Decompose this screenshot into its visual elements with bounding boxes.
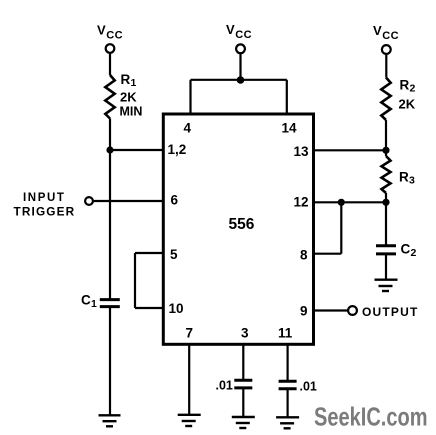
- wire R1 bottom to junction: [109, 119, 111, 151]
- svg-text:2K: 2K: [120, 90, 137, 105]
- svg-text:MIN: MIN: [120, 105, 143, 119]
- wire trigger to pin 6: [93, 200, 164, 202]
- wire pin 13: [313, 149, 386, 151]
- wire junction down to C1: [109, 150, 111, 299]
- resistor R1: [105, 75, 114, 119]
- svg-text:14: 14: [282, 121, 298, 136]
- node VCC (top center) label: [226, 22, 252, 41]
- svg-text:.01: .01: [216, 379, 233, 393]
- wire pin 11 to bypass cap: [287, 344, 289, 381]
- wire to pin 14: [286, 80, 288, 114]
- wire to pin 4: [189, 80, 191, 114]
- svg-text:C: C: [81, 293, 91, 308]
- svg-text:R: R: [400, 78, 410, 93]
- label INPUT TRIGGER: [14, 192, 76, 219]
- svg-text:1: 1: [131, 77, 137, 89]
- svg-text:11: 11: [278, 326, 293, 341]
- svg-text:7: 7: [186, 326, 194, 341]
- svg-text:OUTPUT: OUTPUT: [362, 305, 419, 319]
- ground (pin 7): [178, 415, 201, 426]
- svg-text:12: 12: [294, 195, 309, 210]
- svg-text:.01: .01: [300, 380, 317, 394]
- svg-text:TRIGGER: TRIGGER: [14, 205, 76, 219]
- capacitor C2: [376, 246, 396, 254]
- label R1 2K MIN: [120, 72, 143, 119]
- wire junction to pin 1,2: [108, 149, 164, 151]
- svg-text:V: V: [97, 23, 106, 38]
- wire pin 3 to bypass cap: [242, 344, 244, 380]
- wire bracket pin 5 to pin 10: [135, 253, 163, 308]
- node VCC (right) label: [373, 23, 399, 42]
- wire R2 to junction 13: [385, 120, 387, 150]
- ground (C2): [375, 280, 398, 291]
- junction pin12/pin8 bracket: [338, 199, 345, 206]
- wire pin 7 to ground: [188, 344, 190, 415]
- terminal VCC right (open circle): [382, 45, 391, 54]
- label R2 2K: [399, 78, 416, 112]
- svg-text:1,2: 1,2: [168, 142, 187, 157]
- wire bracket horizontal pins 4-14: [191, 79, 287, 81]
- capacitor .01 (pin 3): [234, 380, 252, 388]
- svg-text:V: V: [226, 22, 235, 37]
- svg-text:13: 13: [294, 144, 310, 159]
- wire junction 12 down to C2: [385, 202, 387, 245]
- terminal VCC top center (open circle): [236, 44, 245, 53]
- ground (C1): [99, 415, 121, 426]
- wire bracket pin 12 to pin 8: [313, 202, 341, 253]
- wire R3 to junction 12: [385, 193, 387, 202]
- terminal VCC left (open circle): [106, 44, 115, 53]
- svg-text:1: 1: [91, 298, 97, 310]
- resistor R3: [382, 156, 391, 193]
- svg-text:R: R: [399, 170, 409, 185]
- wire VCC center down to bracket: [239, 53, 241, 80]
- svg-text:3: 3: [409, 175, 415, 187]
- op IC 556 body: [163, 114, 313, 344]
- junction R3/C2/pin12: [382, 199, 389, 206]
- label C1: [81, 293, 97, 311]
- svg-text:C: C: [401, 242, 411, 257]
- svg-text:INPUT: INPUT: [23, 192, 66, 204]
- wire pin 9 to output: [313, 309, 348, 311]
- svg-text:CC: CC: [235, 29, 252, 41]
- svg-text:8: 8: [300, 248, 308, 263]
- junction node R1/pin1,2/C1: [106, 146, 113, 153]
- ground (pin 11): [276, 417, 299, 428]
- svg-text:6: 6: [171, 193, 179, 208]
- terminal OUTPUT (open circle): [348, 306, 357, 315]
- wire junction to R3: [385, 150, 387, 156]
- resistor R2: [381, 78, 390, 121]
- svg-text:V: V: [373, 23, 382, 38]
- node VCC (left) label: [97, 23, 123, 42]
- wire C1 to ground: [109, 307, 111, 415]
- capacitor .01 (pin 11): [279, 381, 297, 389]
- svg-text:2K: 2K: [399, 97, 416, 112]
- label C2: [401, 242, 417, 260]
- svg-text:CC: CC: [106, 30, 123, 42]
- wire VCC left to R1: [109, 53, 111, 75]
- wire cap to ground (pin 11): [287, 389, 289, 417]
- terminal INPUT TRIGGER (open circle): [85, 197, 93, 205]
- svg-text:SeekIC.com: SeekIC.com: [314, 402, 428, 432]
- svg-text:CC: CC: [382, 30, 399, 42]
- wire C2 to ground: [385, 254, 387, 280]
- svg-text:2: 2: [410, 83, 416, 95]
- junction R2/R3/pin13: [382, 147, 389, 154]
- svg-text:556: 556: [229, 216, 255, 233]
- svg-text:4: 4: [184, 121, 192, 136]
- ground (pin 3): [232, 417, 255, 428]
- wire cap to ground (pin 3): [242, 388, 244, 417]
- wire pin 12: [313, 201, 386, 203]
- svg-text:2: 2: [411, 247, 417, 259]
- svg-text:9: 9: [300, 304, 308, 319]
- wire VCC right to R2: [385, 54, 387, 78]
- capacitor C1: [100, 300, 120, 307]
- junction VCC/pins 4-14: [237, 76, 245, 84]
- svg-text:R: R: [121, 72, 131, 87]
- label R3: [399, 170, 415, 187]
- svg-text:10: 10: [169, 301, 184, 316]
- svg-text:5: 5: [170, 247, 178, 262]
- svg-text:3: 3: [241, 326, 249, 341]
